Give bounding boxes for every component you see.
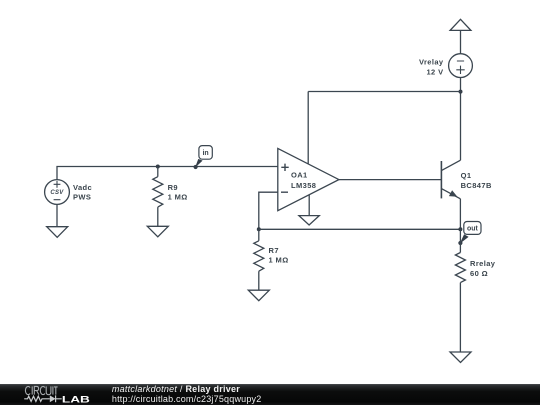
ground [450, 352, 471, 363]
ground [147, 226, 168, 237]
wire op-amp power pin [307, 92, 309, 164]
wire inverting input feedback [259, 192, 278, 229]
svg-text:out: out [467, 226, 479, 233]
wire [459, 229, 461, 252]
wire [56, 204, 58, 226]
footer bar [0, 384, 540, 405]
node junction [156, 165, 160, 169]
svg-text:R9: R9 [168, 183, 178, 192]
svg-text:CSV: CSV [50, 190, 64, 196]
svg-text:http://circuitlab.com/c23j75qq: http://circuitlab.com/c23j75qqwupy2 [112, 394, 262, 404]
svg-text:OA1: OA1 [291, 171, 308, 180]
label R9 1 MΩ [168, 183, 188, 202]
node in [194, 146, 213, 169]
wire [460, 30, 462, 53]
wire [259, 228, 461, 230]
wire op-amp output [339, 179, 442, 181]
svg-text:mattclarkdotnet / Relay driver: mattclarkdotnet / Relay driver [112, 384, 240, 394]
node out [458, 222, 481, 246]
wire collector [460, 92, 462, 161]
logo CircuitLab [24, 386, 90, 405]
resistor R9 [153, 177, 163, 207]
wire [459, 283, 461, 352]
svg-text:Vadc: Vadc [73, 183, 92, 192]
resistor R7 [254, 229, 264, 271]
resistor Rrelay [455, 253, 465, 283]
label Vadc PWS [73, 183, 92, 201]
label Rrelay 60 Ω [470, 259, 496, 278]
wire [460, 78, 462, 92]
wire [157, 167, 159, 177]
svg-text:60 Ω: 60 Ω [470, 269, 488, 278]
svg-text:LAB: LAB [62, 394, 90, 405]
ground [47, 227, 68, 238]
ground [299, 216, 319, 225]
ground [248, 290, 269, 301]
node junction [257, 227, 261, 231]
transistor Q1 [441, 160, 460, 199]
wire [258, 271, 260, 290]
wire [157, 207, 159, 226]
svg-text:R7: R7 [269, 246, 279, 255]
power arrow Vrelay rail [450, 19, 471, 30]
wire emitter [459, 199, 461, 230]
svg-text:Q1: Q1 [461, 171, 472, 180]
svg-text:1 MΩ: 1 MΩ [168, 193, 188, 202]
svg-text:Vrelay: Vrelay [419, 57, 444, 66]
label R7 1 MΩ [269, 246, 289, 265]
svg-text:PWS: PWS [73, 192, 91, 201]
wire [57, 167, 278, 180]
svg-text:BC847B: BC847B [461, 181, 492, 190]
wire op-amp ground pin [308, 195, 310, 216]
wire [308, 91, 460, 93]
op-amp OA1 [278, 148, 339, 210]
voltage source Vrelay [449, 54, 473, 78]
node junction [458, 227, 462, 231]
label Vrelay 12 V [419, 57, 444, 76]
svg-text:LM358: LM358 [291, 181, 316, 190]
label OA1 LM358 [291, 171, 316, 190]
svg-text:in: in [202, 150, 208, 157]
label Q1 BC847B [461, 171, 492, 190]
node junction [459, 90, 463, 94]
svg-text:12 V: 12 V [426, 68, 443, 77]
svg-text:Rrelay: Rrelay [470, 259, 496, 268]
svg-text:1 MΩ: 1 MΩ [269, 255, 289, 264]
voltage source Vadc [45, 180, 70, 205]
